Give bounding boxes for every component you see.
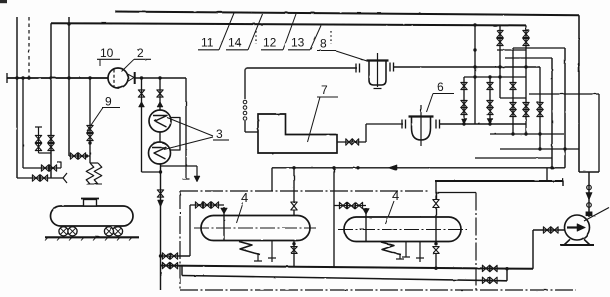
- svg-text:14: 14: [228, 36, 242, 50]
- svg-text:11: 11: [201, 36, 214, 50]
- svg-text:3: 3: [216, 127, 223, 141]
- svg-text:13: 13: [291, 36, 305, 50]
- svg-text:7: 7: [321, 83, 328, 97]
- svg-text:2: 2: [137, 46, 144, 60]
- svg-text:4: 4: [241, 190, 248, 205]
- svg-text:9: 9: [105, 95, 112, 109]
- svg-text:12: 12: [263, 36, 277, 50]
- svg-text:6: 6: [437, 80, 444, 94]
- svg-text:10: 10: [100, 46, 114, 60]
- svg-text:8: 8: [320, 37, 327, 51]
- svg-text:4: 4: [392, 188, 399, 203]
